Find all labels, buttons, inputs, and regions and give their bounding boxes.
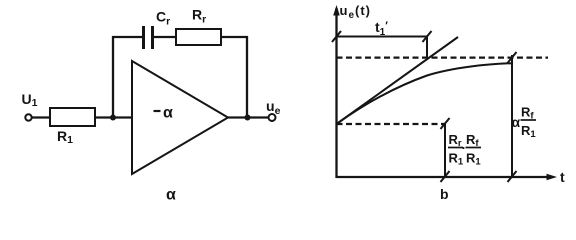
svg-text:Rf: Rf	[521, 105, 534, 122]
svg-text:Rf: Rf	[466, 132, 479, 149]
svg-text:b: b	[440, 186, 449, 202]
svg-text:R1: R1	[57, 128, 73, 146]
svg-text:Cr: Cr	[156, 9, 170, 28]
svg-text:t: t	[560, 169, 565, 185]
svg-text:Rr: Rr	[449, 132, 462, 149]
svg-text:α: α	[166, 187, 176, 204]
svg-text:t1′: t1′	[375, 19, 388, 38]
svg-text:U1: U1	[22, 91, 38, 109]
svg-text:R1: R1	[466, 151, 481, 168]
svg-text:α: α	[512, 114, 521, 130]
svg-text:R1: R1	[521, 123, 536, 140]
svg-text:ue(t): ue(t)	[340, 3, 372, 21]
svg-text:α: α	[163, 105, 173, 122]
svg-text:Rr: Rr	[192, 7, 206, 26]
